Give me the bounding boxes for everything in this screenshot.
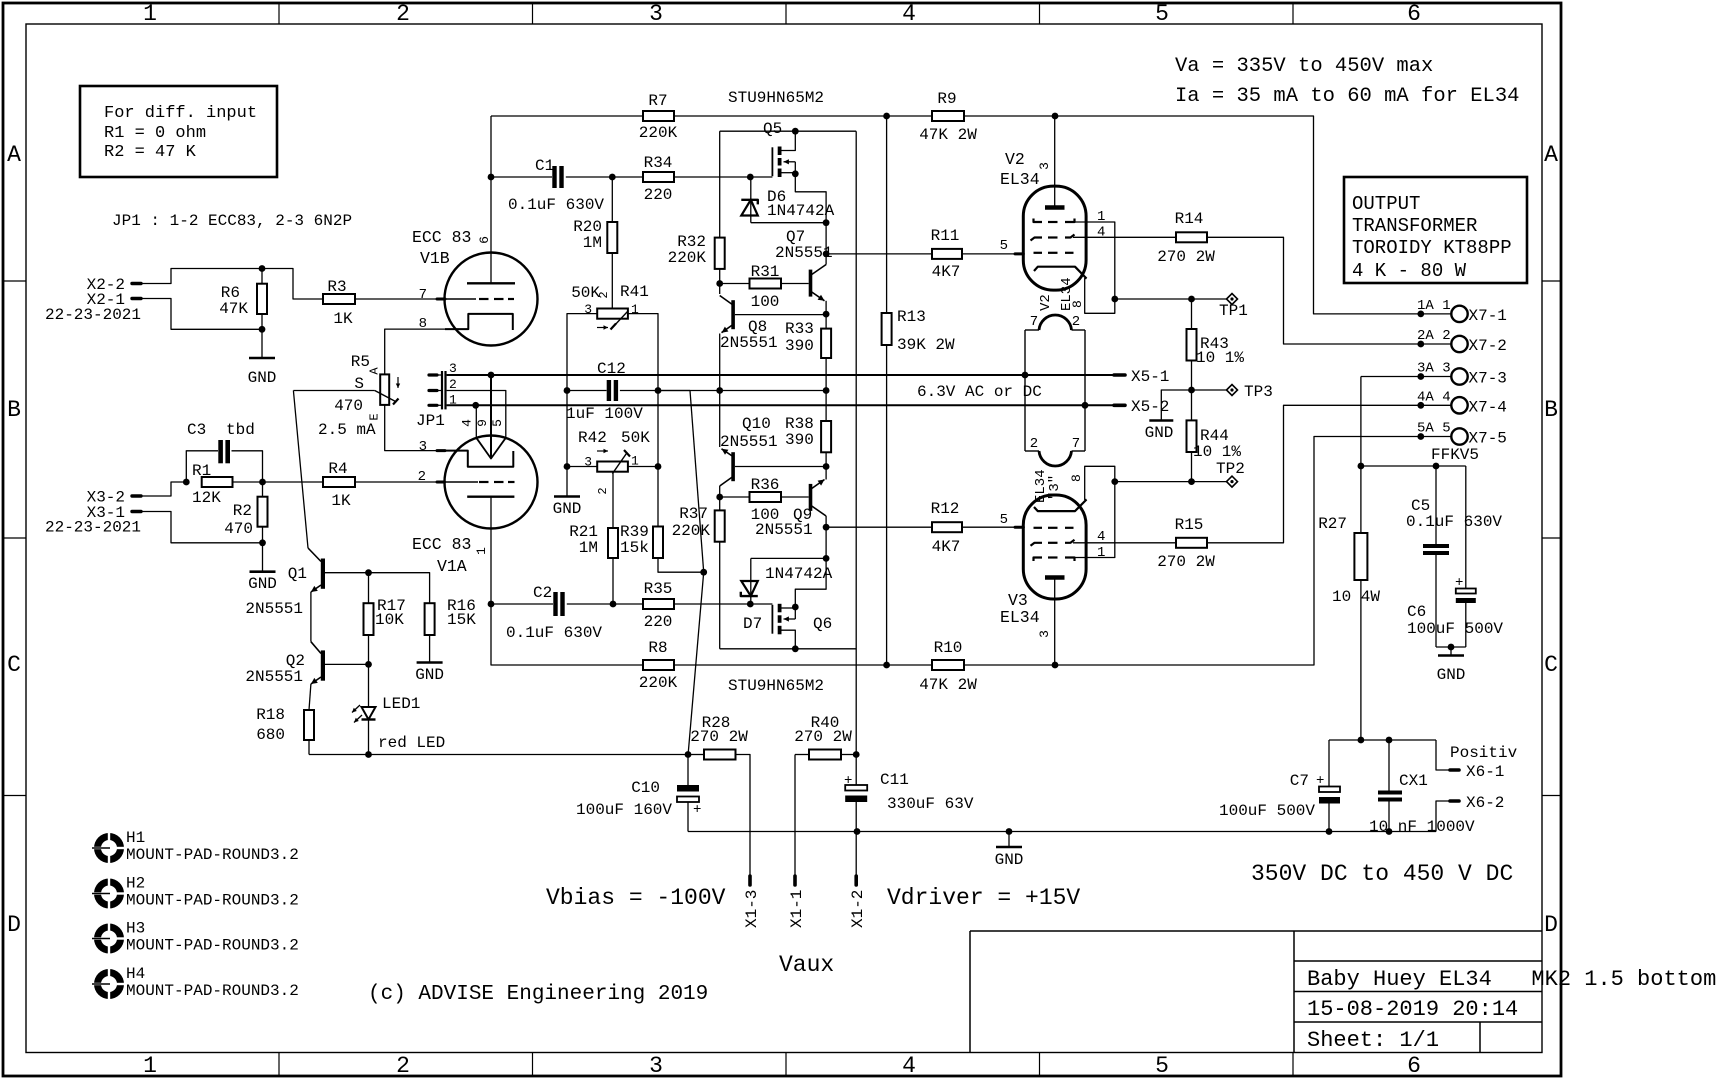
svg-text:STU9HN65M2: STU9HN65M2 bbox=[728, 89, 824, 107]
svg-text:C1: C1 bbox=[535, 157, 554, 175]
wire R44 top to TP3 node bbox=[1191, 390, 1193, 420]
test point TP3 bbox=[1192, 383, 1273, 401]
svg-text:Q6: Q6 bbox=[813, 615, 832, 633]
svg-text:For diff. input: For diff. input bbox=[104, 104, 257, 123]
svg-text:red LED: red LED bbox=[378, 734, 445, 752]
svg-text:TP3: TP3 bbox=[1244, 383, 1273, 401]
zener diode D7 1N4742A bbox=[741, 558, 833, 633]
svg-text:D: D bbox=[7, 912, 21, 938]
wire 6.3V heater line lower (JP1 pin1 to X5-2) bbox=[447, 404, 1114, 406]
svg-text:47K 2W: 47K 2W bbox=[919, 676, 977, 694]
resistor R44 10 1% bbox=[1187, 420, 1242, 481]
junction heater lower / box right bbox=[1082, 402, 1089, 409]
transistor Q9 2N5551 npn bbox=[755, 467, 826, 559]
svg-text:CX1: CX1 bbox=[1399, 772, 1428, 790]
wire V2 anode to top rail bbox=[1054, 116, 1056, 208]
svg-text:Q1: Q1 bbox=[288, 565, 307, 583]
svg-text:D7: D7 bbox=[743, 615, 762, 633]
svg-text:STU9HN65M2: STU9HN65M2 bbox=[728, 677, 824, 695]
wire top rail R9 to X7-1 corner bbox=[964, 116, 1451, 314]
svg-text:10 nF 1000V: 10 nF 1000V bbox=[1369, 818, 1475, 836]
wire top rail from V1B plate to R7 bbox=[491, 115, 643, 117]
wire R33 to R38 bbox=[825, 358, 827, 421]
ground below R42 pin3 bbox=[566, 467, 568, 497]
svg-text:22-23-2021: 22-23-2021 bbox=[45, 306, 141, 324]
wire R41 pin1 down to NFB line bbox=[628, 314, 658, 391]
junction Q7 emitter / Q8 base / R33 bbox=[823, 311, 830, 318]
wire bias rail from LED to R28 bbox=[309, 754, 688, 756]
svg-text:MOUNT-PAD-ROUND3.2: MOUNT-PAD-ROUND3.2 bbox=[126, 846, 299, 864]
svg-text:LED1: LED1 bbox=[382, 695, 420, 713]
wire node to R3 bbox=[262, 269, 323, 300]
svg-text:6: 6 bbox=[477, 236, 492, 244]
svg-text:X7-4: X7-4 bbox=[1469, 398, 1507, 416]
svg-text:H1: H1 bbox=[126, 829, 145, 847]
svg-text:R7: R7 bbox=[648, 92, 667, 110]
svg-text:R3: R3 bbox=[327, 278, 346, 296]
resistor R12 bbox=[826, 500, 1023, 556]
svg-text:220K: 220K bbox=[639, 674, 678, 692]
wire ground rail bbox=[688, 831, 1436, 833]
connector X7-1 bbox=[1417, 298, 1507, 325]
connector X2-1 bbox=[45, 291, 141, 324]
junction D6 / Q5 source branch bbox=[823, 219, 830, 226]
svg-text:100uF 160V: 100uF 160V bbox=[576, 801, 672, 819]
wire R38 to junction bbox=[825, 452, 827, 466]
svg-text:R37: R37 bbox=[679, 505, 708, 523]
note box: diff input bbox=[80, 86, 277, 177]
wire V3 g3 pin1 to cathode node bbox=[1075, 482, 1115, 558]
wire Q10 collector to R36 node bbox=[719, 486, 721, 510]
connector X1-3 bbox=[743, 876, 761, 928]
heater V2 (pins 7-2) bbox=[1025, 314, 1085, 330]
junction Q6 drain bbox=[792, 645, 799, 652]
svg-text:1M: 1M bbox=[583, 234, 602, 252]
svg-text:2N5551: 2N5551 bbox=[245, 668, 303, 686]
wire V1A plate down to C2 and bottom rail bbox=[491, 497, 643, 665]
svg-text:EL34: EL34 bbox=[1000, 170, 1040, 189]
svg-text:3: 3 bbox=[1037, 630, 1052, 638]
svg-text:220K: 220K bbox=[668, 249, 707, 267]
resistor R3 bbox=[323, 278, 355, 328]
mosfet Q6 STU9HN65M2 bbox=[772, 604, 832, 649]
resistor R34 bbox=[612, 154, 674, 204]
svg-text:680: 680 bbox=[256, 726, 285, 744]
wire R15 to X7-4 bbox=[1207, 405, 1451, 543]
svg-text:9: 9 bbox=[475, 419, 490, 427]
svg-text:270 2W: 270 2W bbox=[794, 728, 852, 746]
svg-text:4A 4: 4A 4 bbox=[1417, 389, 1451, 405]
junction R39 / bias diagonal bbox=[700, 569, 707, 576]
wire heater box left vertical bbox=[1024, 330, 1026, 451]
junction C7 bottom bbox=[1326, 828, 1333, 835]
capacitor C6 100uF 500V bbox=[1407, 466, 1503, 647]
wire X2-2 to R6 top bbox=[141, 269, 262, 284]
svg-text:470: 470 bbox=[224, 520, 253, 538]
junction D7 / Q6 source branch bbox=[823, 555, 830, 562]
svg-text:220: 220 bbox=[644, 613, 673, 631]
resistor R31 bbox=[720, 263, 781, 311]
svg-text:+: + bbox=[693, 802, 701, 818]
svg-text:GND: GND bbox=[553, 500, 582, 518]
junction R43 top bbox=[1188, 296, 1195, 303]
resistor R10 bbox=[919, 639, 977, 694]
svg-text:EL34: EL34 bbox=[1000, 608, 1040, 627]
svg-text:4K7: 4K7 bbox=[932, 538, 961, 556]
wire R4 to V1A grid pin 2 bbox=[355, 481, 437, 483]
transistor Q10 2N5551 pnp bbox=[720, 415, 826, 486]
wire driver right vertical (Vdriver) bbox=[855, 131, 857, 754]
mount pad H1 bbox=[92, 829, 299, 865]
svg-text:R41: R41 bbox=[620, 283, 649, 301]
wire R3 to V1B grid pin 7 bbox=[355, 298, 437, 300]
svg-text:7: 7 bbox=[1030, 314, 1038, 330]
svg-text:6: 6 bbox=[1407, 1053, 1421, 1079]
svg-text:100uF 500V: 100uF 500V bbox=[1407, 620, 1503, 638]
junction C5 top bbox=[1433, 463, 1440, 470]
junction CX1 bottom bbox=[1386, 828, 1393, 835]
svg-text:R9: R9 bbox=[937, 90, 956, 108]
svg-text:2N5551: 2N5551 bbox=[720, 334, 778, 352]
svg-text:2: 2 bbox=[1030, 436, 1038, 452]
junction top rail / R13 bbox=[883, 113, 890, 120]
svg-text:3: 3 bbox=[649, 1053, 663, 1079]
svg-text:A: A bbox=[1544, 142, 1558, 168]
svg-text:220K: 220K bbox=[672, 522, 711, 540]
junction NFB / R33-R38 bbox=[823, 387, 830, 394]
svg-text:C11: C11 bbox=[880, 771, 909, 789]
connector X2-2 bbox=[87, 276, 141, 294]
resistor R16 bbox=[425, 597, 477, 635]
wire bottom rail R10 to X7-5 corner bbox=[964, 437, 1451, 666]
svg-text:2N5551: 2N5551 bbox=[755, 521, 813, 539]
resistor R7 bbox=[639, 92, 678, 142]
connector X7-5 bbox=[1417, 421, 1507, 448]
svg-text:Vdriver = +15V: Vdriver = +15V bbox=[887, 885, 1080, 911]
svg-text:TOROIDY KT88PP: TOROIDY KT88PP bbox=[1352, 237, 1512, 259]
svg-text:R33: R33 bbox=[785, 320, 814, 338]
svg-text:R31: R31 bbox=[751, 263, 780, 281]
connector X7-3 bbox=[1417, 361, 1507, 388]
svg-text:R27: R27 bbox=[1318, 515, 1347, 533]
junction NFB / Q8-Q10 emitters bbox=[716, 387, 723, 394]
svg-text:GND: GND bbox=[248, 369, 277, 387]
ground below R16 bbox=[429, 635, 431, 663]
svg-text:1K: 1K bbox=[333, 310, 353, 328]
junction R11 branch bbox=[823, 251, 830, 258]
junction Q2 base / R17 / LED bbox=[365, 661, 372, 668]
svg-text:15-08-2019 20:14: 15-08-2019 20:14 bbox=[1307, 997, 1518, 1022]
svg-text:0.1uF 630V: 0.1uF 630V bbox=[508, 196, 604, 214]
wire R5 wiper to Q1 collector bbox=[293, 391, 308, 549]
svg-text:X7-1: X7-1 bbox=[1469, 307, 1507, 325]
svg-text:0.1uF 630V: 0.1uF 630V bbox=[506, 624, 602, 642]
svg-text:X1-1: X1-1 bbox=[788, 890, 806, 928]
svg-text:5: 5 bbox=[490, 419, 505, 427]
svg-text:5A 5: 5A 5 bbox=[1417, 421, 1451, 437]
svg-text:1uF 100V: 1uF 100V bbox=[566, 405, 643, 423]
svg-text:JP1: JP1 bbox=[416, 412, 445, 430]
svg-text:4: 4 bbox=[902, 1053, 916, 1079]
svg-text:270 2W: 270 2W bbox=[1157, 553, 1215, 571]
wire Q6 source to D7 line bbox=[795, 558, 826, 607]
junction V1A plate / C2 bbox=[488, 601, 495, 608]
svg-text:15K: 15K bbox=[447, 611, 476, 629]
resistor R1 bbox=[192, 462, 233, 507]
wire X2-1 to R6 bottom bbox=[141, 299, 262, 330]
resistor R27 10 4W bbox=[1318, 515, 1380, 606]
svg-text:A: A bbox=[7, 142, 21, 168]
svg-text:R2: R2 bbox=[233, 502, 252, 520]
ground branch at TP3 node bbox=[1145, 390, 1192, 442]
svg-text:1: 1 bbox=[143, 1053, 157, 1079]
wire to X6-1 bbox=[1436, 740, 1450, 770]
svg-text:R36: R36 bbox=[751, 476, 780, 494]
svg-text:1: 1 bbox=[631, 302, 639, 317]
note box: output transformer bbox=[1344, 177, 1527, 283]
wire B+ vertical bbox=[1360, 377, 1362, 534]
svg-text:4 K - 80 W: 4 K - 80 W bbox=[1352, 260, 1467, 282]
connector X6-1 bbox=[1450, 744, 1518, 781]
jumper JP1 bbox=[416, 361, 457, 430]
svg-text:7: 7 bbox=[419, 287, 427, 303]
svg-text:4: 4 bbox=[1097, 225, 1105, 241]
svg-text:8: 8 bbox=[1070, 300, 1085, 308]
wire R14 to X7-2 bbox=[1207, 237, 1451, 344]
title block bbox=[970, 931, 1716, 1053]
svg-text:OUTPUT: OUTPUT bbox=[1352, 193, 1420, 215]
wire R42 pin3 bbox=[567, 466, 597, 468]
resistor R38 bbox=[785, 415, 831, 452]
svg-text:270 2W: 270 2W bbox=[1157, 248, 1215, 266]
wire driver box bottom bbox=[720, 648, 857, 650]
svg-text:330uF 63V: 330uF 63V bbox=[887, 795, 974, 813]
wire Q2 emitter to R18 bbox=[309, 684, 311, 710]
zener diode D6 1N4742A bbox=[741, 177, 834, 223]
svg-text:100uF 500V: 100uF 500V bbox=[1219, 802, 1315, 820]
wire heater box right vertical bbox=[1084, 330, 1086, 451]
wire Q8 emitter to Q10 collector bbox=[719, 334, 721, 448]
svg-text:4: 4 bbox=[902, 1, 916, 27]
svg-text:C6: C6 bbox=[1407, 603, 1426, 621]
svg-text:100: 100 bbox=[751, 293, 780, 311]
svg-text:V1B: V1B bbox=[420, 249, 450, 268]
mount pad H3 bbox=[92, 920, 299, 956]
svg-text:TRANSFORMER: TRANSFORMER bbox=[1352, 215, 1477, 237]
junction heater upper / box left bbox=[1022, 372, 1029, 379]
wire R1 to R4 bbox=[233, 481, 324, 483]
capacitor C11 330uF 63V bbox=[844, 755, 974, 832]
svg-text:Ia = 35 mA to 60 mA for EL34: Ia = 35 mA to 60 mA for EL34 bbox=[1175, 85, 1519, 108]
wire R31 to Q7 base bbox=[781, 283, 809, 285]
wire V3 anode to bottom rail bbox=[1054, 578, 1056, 666]
wire V3 cathode pin8 to node bbox=[1085, 466, 1115, 499]
svg-text:2: 2 bbox=[596, 487, 610, 494]
wire R34 to Q5 gate bbox=[674, 176, 772, 178]
junction R21 bottom / C2 line bbox=[610, 601, 617, 608]
svg-text:X5-2: X5-2 bbox=[1131, 398, 1169, 416]
wire V2 g2 pin4 to R14 bbox=[1073, 236, 1176, 238]
junction B+ / C7 bbox=[1358, 737, 1365, 744]
transistor Q8 2N5551 pnp bbox=[720, 296, 826, 353]
connector X1-2 bbox=[849, 876, 867, 928]
svg-text:1: 1 bbox=[1097, 209, 1105, 225]
wire Q1 emitter to Q2 collector bbox=[310, 592, 312, 642]
svg-text:GND: GND bbox=[415, 666, 444, 684]
junction ground rail GND bbox=[1006, 828, 1013, 835]
svg-text:X7-5: X7-5 bbox=[1469, 430, 1507, 448]
svg-text:V2: V2 bbox=[1005, 150, 1025, 169]
svg-text:X7-2: X7-2 bbox=[1469, 337, 1507, 355]
svg-text:390: 390 bbox=[785, 337, 814, 355]
svg-text:1M: 1M bbox=[579, 539, 598, 557]
svg-text:2: 2 bbox=[418, 469, 426, 485]
junction NFB / pot left column bbox=[564, 387, 571, 394]
wire bias diagonal lower bbox=[688, 572, 704, 754]
wire 6.3V heater line upper (JP1 pin3 to X5-1) bbox=[447, 374, 1114, 376]
wire R28 to X1-3 bbox=[736, 755, 751, 878]
junction V2 cathode node bbox=[1111, 296, 1118, 303]
svg-text:R13: R13 bbox=[897, 308, 926, 326]
junction C5C6 bottom bbox=[1448, 644, 1455, 651]
svg-text:S: S bbox=[354, 375, 364, 393]
junction bottom rail / V3 anode bbox=[1052, 662, 1059, 669]
svg-text:270 2W: 270 2W bbox=[690, 728, 748, 746]
svg-text:X6-1: X6-1 bbox=[1466, 763, 1504, 781]
wire X1-2 vertical bbox=[855, 832, 857, 878]
connector X1-1 bbox=[788, 876, 806, 928]
svg-text:TP1: TP1 bbox=[1219, 302, 1248, 320]
junction V3 cathode node bbox=[1111, 478, 1118, 485]
junction R6 bottom bbox=[259, 326, 266, 333]
svg-text:Va = 335V to 450V max: Va = 335V to 450V max bbox=[1175, 55, 1433, 78]
svg-text:(c) ADVISE Engineering 2019: (c) ADVISE Engineering 2019 bbox=[368, 983, 708, 1006]
svg-text:ECC 83: ECC 83 bbox=[412, 228, 471, 247]
resistor R28 270 2W bbox=[688, 714, 748, 760]
svg-text:"3": "3" bbox=[1047, 475, 1063, 500]
pentode V2 EL34 bbox=[1000, 150, 1087, 311]
wire driver box left vertical bbox=[719, 131, 721, 237]
svg-text:Q5: Q5 bbox=[763, 120, 782, 138]
svg-text:tbd: tbd bbox=[226, 421, 255, 439]
svg-text:3: 3 bbox=[1037, 162, 1052, 170]
svg-text:GND: GND bbox=[248, 575, 277, 593]
svg-text:1: 1 bbox=[1097, 545, 1105, 561]
svg-text:Q10: Q10 bbox=[742, 415, 771, 433]
svg-text:10K: 10K bbox=[375, 611, 404, 629]
svg-text:H4: H4 bbox=[126, 965, 145, 983]
svg-text:R8: R8 bbox=[648, 639, 667, 657]
junction R6 top bbox=[259, 265, 266, 272]
wire C5/C6 bottom line bbox=[1436, 646, 1466, 648]
junction Q6 source bbox=[792, 604, 799, 611]
wire driver box top bbox=[720, 130, 857, 132]
wire V1B plate up to top rail bbox=[490, 116, 492, 283]
resistor R39 bbox=[620, 467, 704, 573]
svg-text:50K: 50K bbox=[621, 429, 650, 447]
svg-text:3: 3 bbox=[649, 1, 663, 27]
resistor R43 10 1% bbox=[1187, 299, 1245, 367]
resistor R35 bbox=[613, 580, 674, 631]
wire cathode node to TP2 bbox=[1115, 481, 1227, 483]
wire B+ bottom distribution bbox=[1329, 739, 1436, 741]
svg-text:3: 3 bbox=[419, 439, 427, 455]
resistor R4 bbox=[323, 460, 355, 510]
svg-text:R10: R10 bbox=[934, 639, 963, 657]
junction heater lower at V1A pin 4 bbox=[472, 402, 479, 409]
svg-text:10 1%: 10 1% bbox=[1193, 443, 1241, 461]
svg-text:MOUNT-PAD-ROUND3.2: MOUNT-PAD-ROUND3.2 bbox=[126, 982, 299, 1000]
junction gate line / D7 bbox=[747, 601, 754, 608]
svg-text:X7-3: X7-3 bbox=[1469, 370, 1507, 388]
svg-text:2A 2: 2A 2 bbox=[1417, 328, 1451, 344]
svg-text:4: 4 bbox=[1097, 529, 1105, 545]
potentiometer R5 470 bbox=[293, 353, 400, 439]
svg-text:ECC 83: ECC 83 bbox=[412, 535, 471, 554]
junction R2 bottom bbox=[259, 539, 266, 546]
wire R42 pin1 bbox=[628, 466, 658, 468]
svg-text:C: C bbox=[7, 652, 21, 678]
junction Vdriver rail / R40 / C11 bbox=[853, 751, 860, 758]
junction top rail / V2 anode bbox=[1052, 113, 1059, 120]
junction C1 / R20 bbox=[609, 174, 616, 181]
transistor Q2 2N5551 npn mirrored bbox=[245, 642, 368, 686]
resistor R15 270 2W bbox=[1157, 516, 1215, 571]
mosfet Q5 STU9HN65M2 bbox=[763, 120, 795, 177]
junction Q5 drain bbox=[792, 128, 799, 135]
junction R42 pin1 bbox=[655, 463, 662, 470]
svg-text:10 4W: 10 4W bbox=[1332, 588, 1380, 606]
junction R12 branch bbox=[823, 524, 830, 531]
wire R35 to Q6 gate bbox=[674, 603, 772, 605]
wire Q1 base node to R16 bbox=[369, 573, 430, 604]
wire Q5 source to D6 anode line bbox=[795, 174, 826, 223]
wire D7 anode line bbox=[751, 557, 826, 559]
connector X5-1 bbox=[1114, 368, 1169, 386]
svg-text:R15: R15 bbox=[1175, 516, 1204, 534]
svg-text:15k: 15k bbox=[620, 539, 649, 557]
svg-text:X6-2: X6-2 bbox=[1466, 794, 1504, 812]
potentiometer R42 50K bbox=[578, 429, 650, 495]
resistor R17 bbox=[364, 573, 406, 665]
resistor R14 270 2W bbox=[1157, 210, 1215, 266]
svg-text:2N5551: 2N5551 bbox=[245, 600, 303, 618]
svg-text:Positiv: Positiv bbox=[1450, 744, 1518, 762]
resistor R32 bbox=[668, 233, 725, 269]
wire D6 anode line bbox=[751, 222, 826, 224]
svg-text:B: B bbox=[7, 397, 21, 423]
svg-text:8: 8 bbox=[1069, 474, 1084, 482]
svg-text:GND: GND bbox=[1437, 666, 1466, 684]
svg-text:5: 5 bbox=[1000, 238, 1008, 254]
wire bottom rail R8 to R10 bbox=[674, 664, 932, 666]
connector X3-1 bbox=[45, 504, 141, 537]
svg-text:R34: R34 bbox=[644, 154, 673, 172]
svg-text:TP2: TP2 bbox=[1216, 460, 1245, 478]
svg-text:47K 2W: 47K 2W bbox=[919, 126, 977, 144]
svg-text:R2 = 47 K: R2 = 47 K bbox=[104, 143, 197, 162]
svg-text:1A 1: 1A 1 bbox=[1417, 298, 1451, 314]
junction Q5 source bbox=[792, 170, 799, 177]
capacitor CX1 10nF bbox=[1369, 740, 1475, 836]
mount pad H4 bbox=[92, 965, 299, 1001]
svg-text:C7: C7 bbox=[1290, 772, 1309, 790]
wire NFB line right of C12 to R33/R38 node bbox=[620, 390, 826, 392]
svg-text:GND: GND bbox=[1145, 424, 1174, 442]
capacitor C1 bbox=[491, 157, 612, 214]
svg-text:C10: C10 bbox=[631, 779, 660, 797]
wire bias diagonal upper bbox=[690, 391, 704, 573]
